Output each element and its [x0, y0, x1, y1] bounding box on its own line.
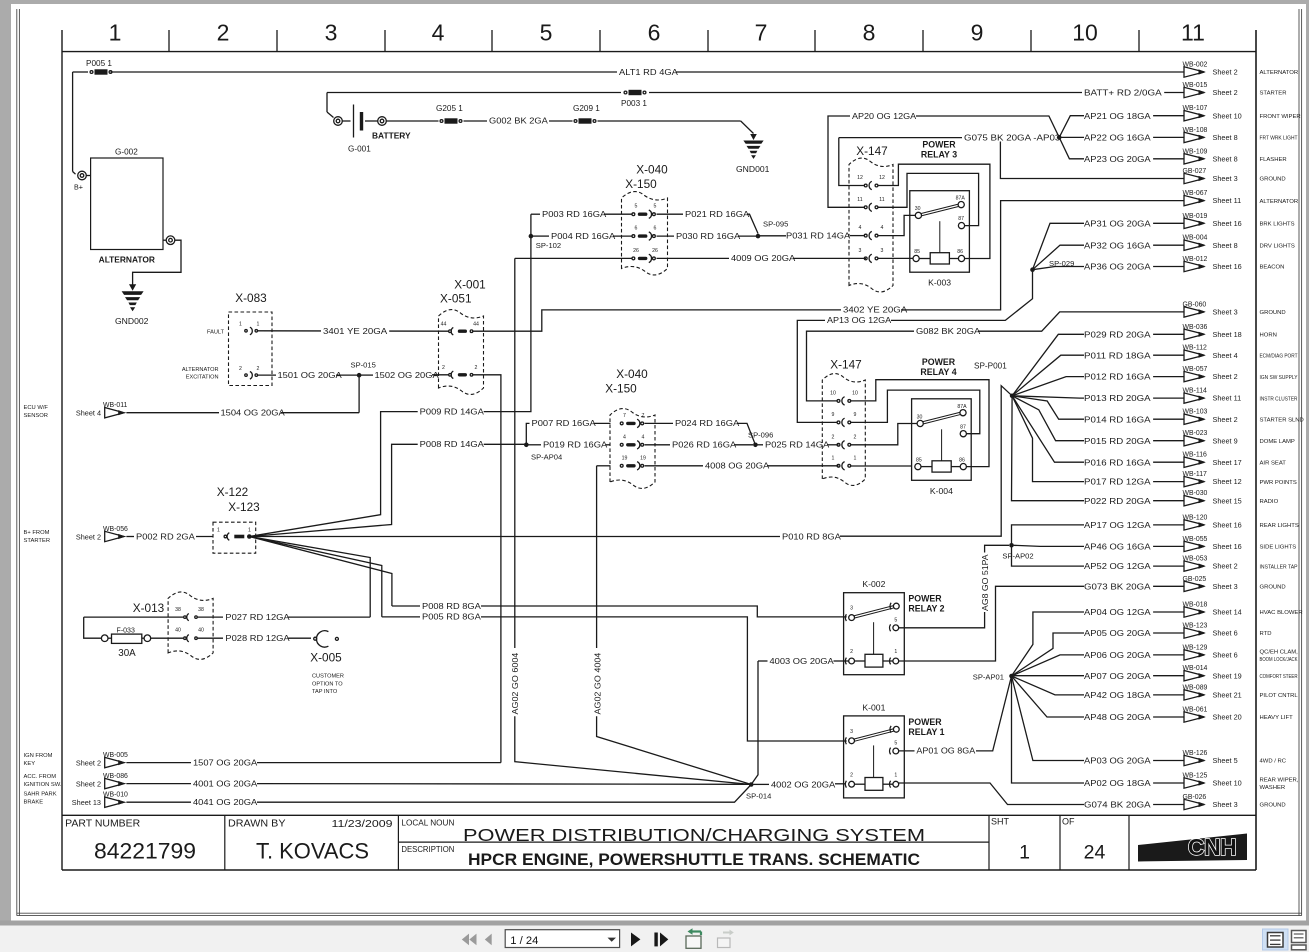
svg-text:2: 2	[832, 434, 835, 440]
svg-text:P030 RD 16GA: P030 RD 16GA	[676, 231, 740, 241]
svg-text:30: 30	[915, 206, 921, 212]
svg-text:WB-129: WB-129	[1183, 644, 1208, 651]
svg-text:Sheet 3: Sheet 3	[1213, 308, 1238, 317]
svg-text:ALTERNATOR: ALTERNATOR	[1260, 199, 1299, 205]
svg-text:ALTERNATOR: ALTERNATOR	[1260, 70, 1299, 76]
svg-text:QC/EH CLAM,: QC/EH CLAM,	[1260, 649, 1299, 655]
svg-text:SIDE LIGHTS: SIDE LIGHTS	[1260, 545, 1297, 551]
svg-text:WB-061: WB-061	[1183, 707, 1208, 714]
svg-text:Sheet 20: Sheet 20	[1213, 713, 1242, 722]
svg-text:RELAY 1: RELAY 1	[908, 727, 944, 737]
svg-text:CUSTOMER: CUSTOMER	[312, 674, 344, 680]
svg-text:CNH: CNH	[1188, 834, 1236, 860]
svg-text:Sheet 14: Sheet 14	[1213, 608, 1242, 617]
svg-text:WB-125: WB-125	[1183, 773, 1208, 780]
svg-text:AP07 OG 20GA: AP07 OG 20GA	[1084, 671, 1151, 681]
svg-text:SHT: SHT	[991, 817, 1010, 827]
svg-text:2: 2	[257, 366, 260, 372]
svg-text:5: 5	[894, 741, 897, 747]
svg-text:30A: 30A	[118, 648, 136, 659]
svg-text:AG02 GO 4004: AG02 GO 4004	[592, 652, 602, 714]
svg-text:AP48 OG 20GA: AP48 OG 20GA	[1084, 712, 1151, 722]
svg-text:AG02 GO 6004: AG02 GO 6004	[510, 652, 520, 714]
svg-text:WB-103: WB-103	[1183, 409, 1208, 416]
svg-text:X-122: X-122	[217, 485, 248, 499]
svg-text:P012 RD 16GA: P012 RD 16GA	[1084, 372, 1151, 382]
svg-text:1: 1	[239, 322, 242, 328]
svg-text:WB-112: WB-112	[1183, 345, 1208, 352]
svg-text:Sheet 2: Sheet 2	[1213, 68, 1238, 77]
svg-text:REAR LIGHTS: REAR LIGHTS	[1260, 523, 1299, 529]
svg-text:X-051: X-051	[440, 292, 471, 306]
svg-text:P031 RD 14GA: P031 RD 14GA	[786, 231, 850, 241]
svg-text:POWER: POWER	[922, 140, 956, 150]
svg-text:SP-014: SP-014	[746, 792, 771, 801]
svg-text:HEAVY LIFT: HEAVY LIFT	[1260, 715, 1294, 721]
svg-text:FAULT: FAULT	[207, 329, 225, 335]
svg-text:AP20 OG 12GA: AP20 OG 12GA	[852, 111, 916, 121]
svg-text:SP-095: SP-095	[763, 220, 788, 229]
svg-text:IGNITION SW.: IGNITION SW.	[24, 782, 62, 788]
svg-text:WB-109: WB-109	[1183, 148, 1208, 155]
svg-text:AP05 OG 20GA: AP05 OG 20GA	[1084, 628, 1151, 638]
svg-text:WB-123: WB-123	[1183, 623, 1208, 630]
svg-text:SP-102: SP-102	[536, 241, 561, 250]
svg-text:Sheet 6: Sheet 6	[1213, 629, 1238, 638]
svg-text:P003 RD 16GA: P003 RD 16GA	[542, 209, 606, 219]
svg-text:7: 7	[623, 413, 626, 419]
svg-text:LOCAL NOUN: LOCAL NOUN	[401, 817, 454, 827]
svg-text:1: 1	[248, 527, 251, 533]
svg-text:2: 2	[854, 434, 857, 440]
svg-text:4: 4	[642, 434, 645, 440]
svg-text:WB-107: WB-107	[1183, 105, 1208, 112]
svg-text:X-147: X-147	[830, 358, 861, 372]
svg-text:1: 1	[217, 527, 220, 533]
svg-text:STARTER SLND: STARTER SLND	[1260, 417, 1304, 423]
svg-text:2: 2	[850, 649, 853, 655]
svg-text:86: 86	[959, 457, 965, 463]
svg-text:RELAY 2: RELAY 2	[908, 604, 944, 614]
svg-text:P004 RD 16GA: P004 RD 16GA	[551, 231, 615, 241]
svg-text:RELAY 4: RELAY 4	[920, 367, 956, 377]
svg-text:REAR WIPER,: REAR WIPER,	[1260, 777, 1299, 783]
svg-text:10: 10	[830, 390, 836, 396]
svg-text:SENSOR: SENSOR	[24, 413, 48, 419]
svg-text:K-003: K-003	[928, 278, 951, 288]
svg-text:P022 RD 20GA: P022 RD 20GA	[1084, 496, 1151, 506]
svg-text:3401 YE 20GA: 3401 YE 20GA	[323, 326, 387, 336]
svg-text:X-001: X-001	[454, 278, 485, 292]
svg-text:AP01 OG 8GA: AP01 OG 8GA	[916, 746, 975, 756]
svg-text:G-002: G-002	[115, 148, 138, 157]
svg-text:86: 86	[957, 249, 963, 255]
svg-text:DRAWN BY: DRAWN BY	[228, 819, 286, 830]
svg-text:Sheet 2: Sheet 2	[1213, 372, 1238, 381]
svg-text:4009 OG 20GA: 4009 OG 20GA	[731, 253, 795, 263]
svg-text:WB-036: WB-036	[1183, 324, 1208, 331]
svg-text:38: 38	[175, 607, 181, 613]
svg-text:BRAKE: BRAKE	[24, 800, 44, 806]
svg-text:X-005: X-005	[310, 651, 342, 665]
svg-text:AP06 OG 20GA: AP06 OG 20GA	[1084, 650, 1151, 660]
svg-text:WB-018: WB-018	[1183, 602, 1208, 609]
svg-text:F-033: F-033	[117, 627, 135, 634]
svg-text:GROUND: GROUND	[1260, 310, 1286, 316]
svg-text:WB-056: WB-056	[103, 526, 128, 533]
svg-text:OPTION TO: OPTION TO	[312, 681, 343, 687]
svg-text:X-150: X-150	[625, 177, 657, 191]
svg-text:Sheet 16: Sheet 16	[1213, 262, 1242, 271]
svg-text:GND001: GND001	[736, 164, 770, 174]
svg-text:WB-005: WB-005	[103, 752, 128, 759]
svg-text:KEY: KEY	[24, 761, 36, 767]
svg-text:T. KOVACS: T. KOVACS	[256, 839, 369, 864]
svg-text:1504 OG 20GA: 1504 OG 20GA	[221, 408, 285, 418]
svg-text:WB-012: WB-012	[1183, 256, 1208, 263]
svg-text:2: 2	[850, 772, 853, 778]
svg-text:BEACON: BEACON	[1260, 265, 1285, 271]
svg-text:4: 4	[623, 434, 626, 440]
svg-text:PART NUMBER: PART NUMBER	[65, 819, 140, 830]
svg-text:K-001: K-001	[862, 702, 885, 712]
svg-text:P010 RD 8GA: P010 RD 8GA	[782, 531, 841, 541]
svg-text:4002 OG 20GA: 4002 OG 20GA	[771, 779, 835, 789]
svg-text:X-123: X-123	[228, 500, 260, 514]
svg-text:AP21 OG 18GA: AP21 OG 18GA	[1084, 111, 1151, 121]
svg-text:SP-AP02: SP-AP02	[1002, 552, 1033, 561]
svg-text:ECU W/F: ECU W/F	[24, 405, 49, 411]
svg-text:9: 9	[854, 412, 857, 418]
svg-text:P007 RD 16GA: P007 RD 16GA	[532, 418, 596, 428]
svg-text:TAP INTO: TAP INTO	[312, 689, 338, 695]
svg-text:WB-011: WB-011	[103, 402, 128, 409]
svg-text:7: 7	[642, 413, 645, 419]
svg-text:RADIO: RADIO	[1260, 499, 1279, 505]
svg-text:B+: B+	[74, 183, 83, 192]
svg-text:INSTALLER TAP: INSTALLER TAP	[1260, 564, 1298, 570]
svg-text:WB-117: WB-117	[1183, 471, 1208, 478]
svg-text:19: 19	[622, 455, 628, 461]
svg-text:WB-010: WB-010	[103, 792, 128, 799]
svg-text:AP23 OG 20GA: AP23 OG 20GA	[1084, 154, 1151, 164]
svg-text:Sheet 13: Sheet 13	[72, 798, 101, 807]
svg-text:WB-108: WB-108	[1183, 127, 1208, 134]
svg-text:85: 85	[916, 457, 922, 463]
svg-text:G073 BK 20GA: G073 BK 20GA	[1084, 581, 1151, 591]
svg-text:7: 7	[755, 20, 768, 46]
svg-text:X-147: X-147	[856, 144, 887, 158]
svg-text:11/23/2009: 11/23/2009	[332, 818, 393, 830]
svg-text:4WD / RC: 4WD / RC	[1260, 759, 1287, 765]
svg-text:3: 3	[850, 729, 853, 735]
svg-text:RELAY 3: RELAY 3	[921, 150, 957, 160]
svg-text:FRT WRK LIGHT: FRT WRK LIGHT	[1260, 136, 1298, 142]
svg-text:10: 10	[852, 390, 858, 396]
svg-text:Sheet 3: Sheet 3	[1213, 174, 1238, 183]
svg-text:P009 RD 14GA: P009 RD 14GA	[420, 406, 484, 416]
svg-text:44: 44	[441, 322, 447, 328]
svg-text:P003 1: P003 1	[621, 99, 647, 108]
svg-text:84221799: 84221799	[94, 839, 196, 864]
svg-text:GB-060: GB-060	[1183, 301, 1207, 308]
svg-text:2: 2	[475, 365, 478, 371]
svg-text:P008 RD 14GA: P008 RD 14GA	[420, 439, 484, 449]
svg-text:1: 1	[854, 455, 857, 461]
svg-text:GB-027: GB-027	[1183, 168, 1207, 175]
svg-text:K-002: K-002	[862, 579, 885, 589]
svg-text:G074 BK 20GA: G074 BK 20GA	[1084, 800, 1151, 810]
svg-text:26: 26	[652, 248, 658, 254]
svg-text:44: 44	[473, 322, 479, 328]
svg-text:Sheet 17: Sheet 17	[1213, 458, 1242, 467]
svg-text:POWER DISTRIBUTION/CHARGING SY: POWER DISTRIBUTION/CHARGING SYSTEM	[463, 825, 925, 845]
svg-text:4: 4	[859, 225, 862, 231]
svg-text:BRK LIGHTS: BRK LIGHTS	[1260, 222, 1295, 228]
svg-text:HORN: HORN	[1260, 333, 1277, 339]
svg-text:P019 RD 16GA: P019 RD 16GA	[543, 440, 607, 450]
svg-text:X-040: X-040	[616, 367, 648, 381]
svg-text:AP52 OG 12GA: AP52 OG 12GA	[1084, 561, 1151, 571]
svg-text:GB-026: GB-026	[1183, 794, 1207, 801]
svg-text:G002 BK 2GA: G002 BK 2GA	[489, 116, 548, 126]
svg-text:Sheet 2: Sheet 2	[1213, 562, 1238, 571]
svg-text:12: 12	[879, 175, 885, 181]
svg-text:P026 RD 16GA: P026 RD 16GA	[672, 440, 736, 450]
svg-text:P005 RD 8GA: P005 RD 8GA	[422, 612, 481, 622]
svg-text:38: 38	[198, 607, 204, 613]
svg-text:30: 30	[917, 414, 923, 420]
svg-text:FLASHER: FLASHER	[1260, 157, 1287, 163]
svg-text:RTD: RTD	[1260, 631, 1272, 637]
svg-text:6: 6	[654, 226, 657, 232]
svg-text:BOOM LOCK/JACK: BOOM LOCK/JACK	[1260, 657, 1298, 663]
svg-text:1502 OG 20GA: 1502 OG 20GA	[375, 370, 439, 380]
svg-text:P016 RD 16GA: P016 RD 16GA	[1084, 457, 1151, 467]
svg-text:P008 RD 8GA: P008 RD 8GA	[422, 601, 481, 611]
svg-text:4: 4	[432, 20, 445, 46]
svg-text:X-040: X-040	[636, 163, 668, 177]
svg-text:AP32 OG 16GA: AP32 OG 16GA	[1084, 240, 1151, 250]
svg-text:SP-P001: SP-P001	[974, 362, 1007, 371]
svg-text:6: 6	[635, 226, 638, 232]
svg-text:1501 OG 20GA: 1501 OG 20GA	[278, 370, 342, 380]
svg-text:1507 OG 20GA: 1507 OG 20GA	[193, 757, 257, 767]
svg-text:Sheet 4: Sheet 4	[76, 409, 101, 418]
svg-text:40: 40	[175, 628, 181, 634]
svg-text:19: 19	[640, 455, 646, 461]
svg-text:WB-019: WB-019	[1183, 213, 1208, 220]
svg-text:WB-004: WB-004	[1183, 235, 1208, 242]
svg-text:ACC. FROM: ACC. FROM	[24, 774, 57, 780]
svg-text:26: 26	[633, 248, 639, 254]
svg-text:GB-025: GB-025	[1183, 576, 1207, 583]
svg-text:Sheet 2: Sheet 2	[76, 779, 101, 788]
svg-text:AP22 OG 16GA: AP22 OG 16GA	[1084, 133, 1151, 143]
svg-text:WB-114: WB-114	[1183, 388, 1208, 395]
svg-text:WB-030: WB-030	[1183, 490, 1208, 497]
svg-text:AP03 OG 20GA: AP03 OG 20GA	[1084, 756, 1151, 766]
svg-text:WB-023: WB-023	[1183, 430, 1208, 437]
svg-text:WB-116: WB-116	[1183, 452, 1208, 459]
svg-text:P028 RD 12GA: P028 RD 12GA	[225, 633, 289, 643]
svg-text:24: 24	[1084, 842, 1106, 864]
svg-text:G075 BK 20GA -AP03: G075 BK 20GA -AP03	[964, 132, 1061, 142]
svg-text:POWER: POWER	[908, 717, 942, 727]
svg-text:Sheet 2: Sheet 2	[1213, 88, 1238, 97]
svg-text:1: 1	[832, 455, 835, 461]
svg-text:SP-015: SP-015	[351, 361, 376, 370]
svg-text:GND002: GND002	[115, 316, 149, 326]
svg-text:WB-126: WB-126	[1183, 750, 1208, 757]
svg-text:Sheet 11: Sheet 11	[1213, 196, 1242, 205]
svg-text:EXCITATION: EXCITATION	[186, 375, 219, 381]
svg-text:Sheet 19: Sheet 19	[1213, 671, 1242, 680]
svg-text:BATTERY: BATTERY	[372, 131, 411, 141]
svg-text:1: 1	[109, 20, 122, 46]
svg-text:Sheet 16: Sheet 16	[1213, 219, 1242, 228]
svg-text:4008 OG 20GA: 4008 OG 20GA	[705, 461, 769, 471]
svg-text:ALTERNATOR: ALTERNATOR	[99, 255, 155, 265]
svg-text:Sheet 21: Sheet 21	[1213, 691, 1242, 700]
svg-text:4003 OG 20GA: 4003 OG 20GA	[770, 656, 834, 666]
svg-text:DOME LAMP: DOME LAMP	[1260, 439, 1295, 445]
svg-text:POWER: POWER	[908, 594, 942, 604]
svg-text:SP-AP04: SP-AP04	[531, 453, 562, 462]
svg-text:Sheet 3: Sheet 3	[1213, 582, 1238, 591]
svg-text:Sheet 2: Sheet 2	[76, 532, 101, 541]
svg-text:AP13 OG 12GA: AP13 OG 12GA	[827, 315, 891, 325]
svg-text:ALT1 RD 4GA: ALT1 RD 4GA	[619, 67, 678, 77]
svg-text:Sheet 8: Sheet 8	[1213, 154, 1238, 163]
svg-text:WB-055: WB-055	[1183, 536, 1208, 543]
svg-text:Sheet 11: Sheet 11	[1213, 394, 1242, 403]
svg-text:3: 3	[850, 606, 853, 612]
svg-text:Sheet 8: Sheet 8	[1213, 133, 1238, 142]
svg-text:G082 BK 20GA: G082 BK 20GA	[916, 326, 980, 336]
svg-text:Sheet 9: Sheet 9	[1213, 436, 1238, 445]
svg-text:87A: 87A	[956, 196, 966, 202]
svg-text:IGN SW SUPPLY: IGN SW SUPPLY	[1260, 375, 1298, 381]
svg-text:11: 11	[1181, 20, 1205, 46]
svg-text:11: 11	[879, 197, 884, 203]
svg-text:1: 1	[894, 772, 897, 778]
svg-text:87A: 87A	[957, 404, 967, 410]
svg-text:Sheet 4: Sheet 4	[1213, 351, 1238, 360]
svg-text:SP-AP01: SP-AP01	[973, 673, 1004, 682]
svg-text:WB-057: WB-057	[1183, 366, 1208, 373]
svg-text:STARTER: STARTER	[1260, 91, 1287, 97]
svg-text:87: 87	[960, 424, 966, 430]
svg-text:HVAC BLOWER: HVAC BLOWER	[1260, 610, 1303, 616]
svg-text:INSTR CLUSTER: INSTR CLUSTER	[1260, 396, 1298, 402]
svg-text:1 / 24: 1 / 24	[510, 935, 538, 947]
svg-text:Sheet 10: Sheet 10	[1213, 779, 1242, 788]
svg-text:PWR POINTS: PWR POINTS	[1260, 480, 1297, 486]
svg-text:GROUND: GROUND	[1260, 177, 1286, 183]
svg-text:ECM/DIAG PORT: ECM/DIAG PORT	[1260, 353, 1298, 359]
svg-text:WB-014: WB-014	[1183, 665, 1208, 672]
svg-text:X-013: X-013	[133, 601, 165, 615]
svg-text:Sheet 12: Sheet 12	[1213, 477, 1242, 486]
svg-text:Sheet 15: Sheet 15	[1213, 496, 1242, 505]
svg-text:P024 RD 16GA: P024 RD 16GA	[675, 418, 739, 428]
svg-text:P014 RD 16GA: P014 RD 16GA	[1084, 414, 1151, 424]
svg-text:IGN FROM: IGN FROM	[24, 753, 53, 759]
svg-text:Sheet 2: Sheet 2	[1213, 415, 1238, 424]
svg-text:FRONT WIPER: FRONT WIPER	[1260, 114, 1301, 120]
svg-text:WB-053: WB-053	[1183, 556, 1208, 563]
svg-text:12: 12	[857, 175, 863, 181]
svg-text:BATT+ RD 2/0GA: BATT+ RD 2/0GA	[1084, 88, 1162, 98]
svg-text:WB-015: WB-015	[1183, 82, 1208, 89]
svg-text:G209 1: G209 1	[573, 104, 600, 113]
svg-text:8: 8	[863, 20, 876, 46]
svg-text:3: 3	[859, 248, 862, 254]
svg-text:OF: OF	[1062, 817, 1075, 827]
svg-text:HPCR ENGINE, POWERSHUTTLE TRAN: HPCR ENGINE, POWERSHUTTLE TRANS. SCHEMAT…	[468, 850, 920, 869]
svg-text:DESCRIPTION: DESCRIPTION	[401, 844, 454, 854]
svg-text:AIR SEAT: AIR SEAT	[1260, 460, 1287, 466]
svg-text:Sheet 6: Sheet 6	[1213, 651, 1238, 660]
svg-text:9: 9	[832, 412, 835, 418]
svg-text:2: 2	[217, 20, 230, 46]
svg-text:WB-002: WB-002	[1183, 62, 1208, 69]
svg-text:WASHER: WASHER	[1260, 785, 1286, 791]
svg-text:11: 11	[857, 197, 862, 203]
svg-text:40: 40	[198, 628, 204, 634]
svg-text:X-150: X-150	[605, 382, 637, 396]
svg-text:AP42 OG 18GA: AP42 OG 18GA	[1084, 690, 1151, 700]
svg-text:AP17 OG 12GA: AP17 OG 12GA	[1084, 520, 1151, 530]
svg-text:B+ FROM: B+ FROM	[24, 530, 50, 536]
svg-text:POWER: POWER	[922, 357, 956, 367]
svg-text:2: 2	[239, 366, 242, 372]
svg-text:Sheet 16: Sheet 16	[1213, 542, 1242, 551]
svg-text:P025 RD 14GA: P025 RD 14GA	[765, 440, 829, 450]
svg-text:2: 2	[442, 365, 445, 371]
svg-text:STARTER: STARTER	[24, 538, 51, 544]
svg-text:AP04 OG 12GA: AP04 OG 12GA	[1084, 607, 1151, 617]
svg-text:WB-067: WB-067	[1183, 190, 1208, 197]
svg-text:SAHR PARK: SAHR PARK	[24, 792, 57, 798]
svg-text:Sheet 18: Sheet 18	[1213, 330, 1242, 339]
svg-text:AP36 OG 20GA: AP36 OG 20GA	[1084, 262, 1151, 272]
svg-text:AP31 OG 20GA: AP31 OG 20GA	[1084, 218, 1151, 228]
svg-text:Sheet 16: Sheet 16	[1213, 521, 1242, 530]
svg-text:ALTERNATOR: ALTERNATOR	[182, 367, 219, 373]
svg-text:Sheet 8: Sheet 8	[1213, 241, 1238, 250]
svg-text:1: 1	[257, 322, 260, 328]
svg-text:P011 RD 18GA: P011 RD 18GA	[1084, 350, 1151, 360]
svg-text:5: 5	[540, 20, 553, 46]
svg-text:X-083: X-083	[235, 291, 267, 305]
svg-text:3: 3	[325, 20, 338, 46]
svg-text:P015 RD 20GA: P015 RD 20GA	[1084, 436, 1151, 446]
svg-text:4001 OG 20GA: 4001 OG 20GA	[193, 778, 257, 788]
svg-text:5: 5	[654, 204, 657, 210]
svg-text:85: 85	[914, 249, 920, 255]
svg-text:Sheet 5: Sheet 5	[1213, 756, 1238, 765]
svg-text:5: 5	[635, 204, 638, 210]
svg-text:6: 6	[648, 20, 661, 46]
svg-text:1: 1	[894, 649, 897, 655]
svg-text:5: 5	[894, 617, 897, 623]
svg-text:G205 1: G205 1	[436, 104, 463, 113]
svg-text:P013 RD 20GA: P013 RD 20GA	[1084, 393, 1151, 403]
svg-text:GROUND: GROUND	[1260, 803, 1286, 809]
svg-text:P005 1: P005 1	[86, 59, 112, 68]
